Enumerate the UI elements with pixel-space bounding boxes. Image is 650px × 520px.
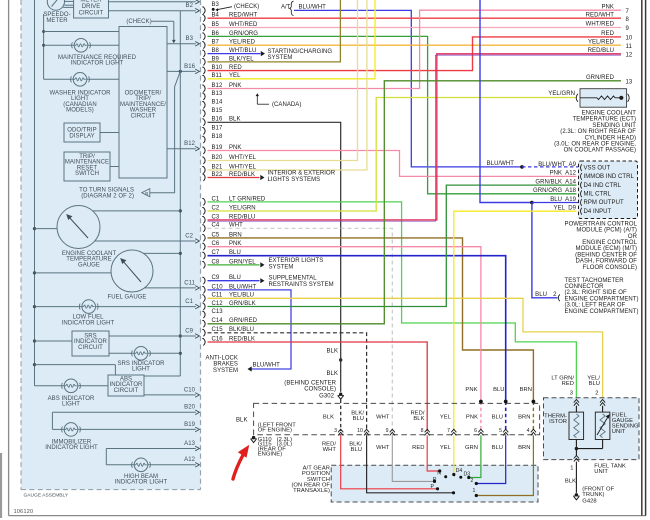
wire B16 BLK to G302 [208,122,343,392]
svg-text:D4: D4 [456,468,463,474]
pcm pin rows [533,162,634,215]
label fuel tank pin 1 [570,466,573,472]
svg-text:FLOOR CONSOLE): FLOOR CONSOLE) [583,265,637,271]
svg-text:CIRCUIT: CIRCUIT [79,11,104,17]
svg-text:SYSTEM: SYSTEM [268,55,293,61]
svg-text:SENDING UNIT: SENDING UNIT [592,123,636,129]
svg-text:BLU: BLU [589,381,600,387]
label EXTERIOR LIGHTS SYSTEM [269,258,324,270]
svg-text:B: B [145,191,148,196]
svg-text:POWERTRAIN CONTROL: POWERTRAIN CONTROL [565,221,638,227]
wire C15 BLK/BLU dashed [208,333,367,431]
trip maintenance reset switch box [64,152,110,181]
svg-text:D4 INPUT: D4 INPUT [584,209,612,215]
svg-text:BLU: BLU [535,292,547,298]
label C2 left [185,233,193,239]
wire box to B12 [167,146,199,151]
svg-text:(3.0L: LEFT REAR OF: (3.0L: LEFT REAR OF [565,303,626,309]
svg-text:BLK: BLK [327,349,339,355]
svg-text:D4 IND CTRL: D4 IND CTRL [584,183,622,189]
wire drive circuit to B2 top [109,0,200,4]
svg-text:YEL: YEL [440,415,452,421]
wire B4 RED/WHT to pin 8 [208,17,622,19]
svg-text:106120: 106120 [14,509,34,515]
svg-text:2: 2 [471,478,474,484]
svg-text:YEL/RED: YEL/RED [588,39,615,45]
label C11 left [184,280,195,286]
svg-text:BLU: BLU [492,415,503,421]
svg-text:10: 10 [626,36,633,42]
wire B20 WHT/YEL up [208,0,358,161]
svg-text:B14: B14 [212,99,223,105]
svg-text:TRUNK): TRUNK) [582,492,604,498]
svg-text:BRN: BRN [518,445,530,451]
svg-text:(CHECK): (CHECK) [126,19,151,25]
svg-text:WHT: WHT [376,445,390,451]
svg-text:RESTRAINTS SYSTEM: RESTRAINTS SYSTEM [269,282,334,288]
label YEL/BLU pin 2 [587,376,600,397]
svg-text:B15: B15 [212,108,223,114]
turn signals connector triangle [142,189,150,197]
svg-text:BLU: BLU [353,416,364,422]
svg-text:(CANADA): (CANADA) [272,102,301,108]
svg-text:SWITCH: SWITCH [75,171,99,177]
svg-text:TRANSAXLE): TRANSAXLE) [293,488,330,494]
svg-text:(CHECK): (CHECK) [234,4,259,10]
label ENGINE COOLANT TEMPERATURE GAUGE [62,251,117,268]
left bus line [33,0,36,386]
wire B11 YEL up [208,0,376,79]
svg-text:PNK: PNK [466,415,478,421]
label B12 left [184,141,195,147]
label ANTI-LOCK BRAKES SYSTEM [206,355,238,373]
svg-text:B19: B19 [184,422,195,428]
svg-text:3: 3 [570,391,573,397]
label B16 left [184,64,195,70]
svg-text:ON COOLANT PASSAGE): ON COOLANT PASSAGE) [564,148,636,154]
right edge pins 7-13 [586,4,633,85]
gauge assembly shaded area [21,0,201,490]
ect sending unit box [576,89,629,108]
label STARTING CHARGING SYSTEM [268,49,333,61]
srs indicator light [109,347,180,361]
svg-text:C13: C13 [212,309,224,315]
svg-text:VSS OUT: VSS OUT [584,165,611,171]
label C1 left [185,299,193,305]
svg-text:11: 11 [626,44,633,50]
svg-text:C1: C1 [185,299,193,305]
pcm connector box [579,161,638,219]
svg-text:OR: OR [628,234,638,240]
svg-text:GAUGE: GAUGE [78,262,100,268]
svg-text:BLK: BLK [327,371,339,377]
svg-text:CONSOLE): CONSOLE) [304,386,336,392]
wire bus to ECT gauge [35,228,58,230]
svg-text:INDICATOR LIGHT: INDICATOR LIGHT [71,61,124,67]
label HIGH BEAM INDICATOR LIGHT [115,474,168,486]
svg-text:GRN/RED: GRN/RED [586,75,615,81]
svg-text:B17: B17 [212,125,223,131]
bottom dashed enclosure [254,403,540,434]
red annotation arrow [233,445,249,479]
svg-text:10: 10 [357,428,363,434]
svg-text:B3: B3 [186,36,194,42]
wire C4 WHT dashed [208,228,393,431]
svg-text:BLK: BLK [236,417,248,423]
svg-text:ODO/TRIP: ODO/TRIP [67,127,96,133]
svg-text:CIRCUIT: CIRCUIT [114,388,139,394]
switch internal links [444,475,462,479]
wire C7 BLU [208,256,506,431]
label BLK fuel tank [565,479,576,485]
fuel gauge sending unit [595,406,639,440]
svg-text:PNK A12: PNK A12 [550,171,577,177]
svg-text:BLK: BLK [565,479,576,485]
svg-text:(DIAGRAM 2 OF 2): (DIAGRAM 2 OF 2) [81,193,134,199]
svg-text:CIRCUIT: CIRCUIT [78,345,103,351]
odometer trip maintenance washer circuit box [119,27,167,179]
svg-text:A/T: A/T [281,4,291,10]
page left border [8,0,10,516]
wire col1 RED/WHT into switch [341,435,439,490]
svg-text:TEMPERATURE (ECT): TEMPERATURE (ECT) [573,117,636,123]
svg-text:BLU/WHT: BLU/WHT [487,161,515,167]
svg-text:MIL CTRL: MIL CTRL [584,192,612,198]
wire B3 BLU/WHT [212,1,521,167]
immobilizer indicator light [52,423,199,437]
maintenance required indicator light [44,39,119,53]
label A13 left [184,441,195,447]
svg-text:MODULE (PCM) (A/T): MODULE (PCM) (A/T) [576,228,637,234]
wire bus to fuel gauge [35,272,112,274]
svg-text:SUPPLEMENTAL: SUPPLEMENTAL [269,275,318,281]
label BLK G302 lower [327,371,339,377]
svg-text:MODELS): MODELS) [66,108,94,114]
svg-text:SYSTEM: SYSTEM [213,368,238,374]
svg-text:(BEHIND CENTER OF: (BEHIND CENTER OF [575,252,637,258]
svg-text:LIGHTS SYSTEMS: LIGHTS SYSTEMS [268,177,321,183]
label YEL/GRN [548,91,575,97]
wire bus to circuit box [44,31,119,33]
svg-text:B16: B16 [184,64,195,70]
wire B7 YEL/RED to pin 11 [208,44,622,46]
label B19 left [184,422,195,428]
speedometer [47,0,64,10]
wire srs box to C9 [109,334,199,339]
speedometer to drive circuit wires [63,1,73,7]
svg-text:(3.0L: ON REAR OF ENGINE,: (3.0L: ON REAR OF ENGINE, [554,142,636,148]
svg-text:IMMOB IND CTRL: IMMOB IND CTRL [584,174,635,180]
svg-text:ENGINE COMPARTMENT): ENGINE COMPARTMENT) [565,309,639,315]
svg-text:3: 3 [334,428,337,434]
label SUPPLEMENTAL RESTRAINTS SYSTEM [269,275,334,287]
washer indicator light [44,73,119,87]
wire ECT gauge to bus3 [92,210,180,212]
svg-text:6: 6 [474,428,477,434]
wire BLU/WHT A9 dashed segment [487,161,578,169]
wire C5 BRN [208,238,534,431]
svg-text:INTERIOR & EXTERIOR: INTERIOR & EXTERIOR [268,170,336,176]
svg-text:ISTOR: ISTOR [549,419,567,425]
wire display to box [100,132,119,134]
svg-text:UNIT: UNIT [594,469,608,475]
label BLK G302 upper [327,349,339,355]
turn signals branch [150,71,181,192]
svg-text:8: 8 [421,428,424,434]
svg-text:(2.3L: RIGHT SIDE OF: (2.3L: RIGHT SIDE OF [565,290,628,296]
label MAINTENANCE REQUIRED INDICATOR LIGHT [58,55,137,67]
label GAUGE ASSEMBLY [24,493,69,499]
labels below bottom connector [322,442,531,454]
svg-text:YEL: YEL [440,445,452,451]
svg-text:C2: C2 [185,233,193,239]
svg-text:BLU/WHT: BLU/WHT [253,363,281,369]
label G110 annotation [258,423,297,458]
svg-text:LIGHT: LIGHT [62,402,80,408]
label G428 [582,486,614,504]
svg-text:LIGHT: LIGHT [132,367,150,373]
scan edge bottom left [0,453,2,518]
wire ECT gauge to C2 [95,239,200,244]
svg-text:RPM OUTPUT: RPM OUTPUT [584,200,624,206]
svg-text:ENGINE): ENGINE) [258,452,283,458]
svg-text:PNK: PNK [602,4,615,10]
wire C1 LT GRN/RED to fuel tank pin 3 [208,202,577,398]
svg-text:ENGINE COMPARTMENT): ENGINE COMPARTMENT) [565,296,639,302]
svg-text:RED/WHT: RED/WHT [586,12,615,18]
high beam indicator light [106,458,199,472]
wire C10 BLU/WHT to anti-lock brakes [208,290,292,372]
thermistor [544,406,583,440]
svg-text:1: 1 [473,488,476,494]
svg-text:STARTING/CHARGING: STARTING/CHARGING [268,49,333,55]
svg-text:A12: A12 [184,457,195,463]
odo trip display box [64,123,100,142]
svg-text:FUEL GAUGE: FUEL GAUGE [108,295,147,301]
svg-text:BLU: BLU [351,447,362,453]
label TO TURN SIGNALS [79,188,134,200]
fuel gauge [111,250,153,292]
wire abs box to C10 [144,393,199,398]
svg-text:BLU: BLU [493,387,504,393]
svg-text:BLU: BLU [492,445,503,451]
abs indicator circuit box [108,375,144,396]
srs indicator circuit box [72,331,109,356]
label FUEL TANK UNIT [594,463,626,475]
ground G428 [573,493,579,500]
label 106120 [14,509,34,515]
svg-text:BLU/WHT: BLU/WHT [299,4,327,10]
wire B6 GRN/ORG to PCM A18 [208,36,577,193]
svg-text:G428: G428 [582,498,596,504]
svg-text:RED: RED [562,381,574,387]
wire C6 PNK [208,247,481,431]
svg-text:WHT: WHT [323,447,337,453]
svg-text:B20: B20 [184,405,195,411]
wire bus to srs box [35,340,73,342]
wire C11 YEL/BLU to fuel tank pin 2 [208,298,603,397]
page bottom border [9,515,646,517]
svg-text:ENGINE COOLANT: ENGINE COOLANT [582,111,637,117]
svg-text:1: 1 [570,466,573,472]
label ect sending unit text [554,111,636,154]
svg-text:7: 7 [447,428,450,434]
wire col7 BLU into switch [475,435,506,485]
svg-text:TEST TACHOMETER: TEST TACHOMETER [565,278,625,284]
junction dots at gear switch wires [479,400,535,404]
svg-text:D3: D3 [464,471,471,477]
gauge assembly dashed border [21,0,201,490]
bottom connector chevrons [338,429,536,435]
wire C16 RED/BLK [208,342,428,431]
svg-text:GAUGE ASSEMBLY: GAUGE ASSEMBLY [24,493,69,499]
svg-text:DRIVE: DRIVE [82,4,101,10]
wire C2 YEL/GRN to ECT sending unit [208,98,577,212]
label B2 [186,3,194,9]
svg-text:A13: A13 [184,441,195,447]
low fuel indicator light [35,300,200,314]
wire reset switch to box [110,166,119,168]
svg-text:12: 12 [626,52,633,58]
label B20 left [184,405,195,411]
label FUEL GAUGE [108,295,147,301]
label INTERIOR EXTERIOR LIGHTS [268,170,336,183]
svg-text:INDICATOR LIGHT: INDICATOR LIGHT [45,445,98,451]
wire col6 GRN into switch [467,435,481,479]
test tachometer connector pin [535,292,560,301]
svg-text:RED: RED [601,31,614,37]
svg-text:GRN/BLK A14: GRN/BLK A14 [535,179,576,185]
svg-text:YEL/GRN: YEL/GRN [548,91,575,97]
svg-text:METER: METER [46,18,68,24]
wire B8 WHT/BLU arrow [208,51,266,56]
svg-text:N: N [437,470,441,476]
wire col2 BLK/BLU into switch [367,435,456,494]
svg-text:C9: C9 [185,328,193,334]
svg-text:4: 4 [527,428,530,434]
ground G110 [250,436,256,443]
label B3 left [186,36,194,42]
svg-text:WHT/RED: WHT/RED [586,22,615,28]
connector pin symbols and labels B3-B22 C1-C16 [202,2,266,345]
svg-text:EXTERIOR LIGHTS: EXTERIOR LIGHTS [269,258,324,264]
wire C9 BLU arrow [208,278,265,283]
svg-text:PNK: PNK [465,387,477,393]
wire B19 PNK to PCM A12 [208,151,577,177]
svg-text:GRN/ORG A18: GRN/ORG A18 [533,188,577,194]
svg-text:DISPLAY: DISPLAY [69,134,94,140]
svg-text:13: 13 [626,79,633,85]
check annotation [126,19,175,43]
wire A13 loop [106,446,199,465]
label WASHER INDICATOR LIGHT [49,91,111,114]
svg-text:METER: METER [80,0,102,4]
svg-text:WHT: WHT [376,415,390,421]
svg-text:BRAKES: BRAKES [213,362,238,368]
svg-text:OF ENGINE): OF ENGINE) [258,428,292,434]
ground G302 [338,393,344,432]
svg-text:5: 5 [499,428,502,434]
wire B22 RED/BLK arrow [208,175,265,180]
label pcm text [565,221,638,270]
svg-text:RED: RED [412,445,424,451]
svg-text:BLK: BLK [323,415,334,421]
wire B12 PNK to pin 7 [208,10,622,88]
label LT GRN/RED pin 3 [551,376,574,397]
canada annotation [256,93,302,108]
bus line right of box [144,11,182,376]
svg-text:CYLINDER HEAD): CYLINDER HEAD) [585,135,636,141]
fuel tank unit box [544,398,640,460]
svg-text:INDICATOR LIGHT: INDICATOR LIGHT [62,320,115,326]
meter drive circuit box [74,0,109,18]
wire B10 RED to pin 10 [208,37,622,71]
at gear position switch box [331,465,538,502]
wire C14 GRN/RED to pin 13 [208,81,622,324]
labels above bottom connector [323,411,531,423]
svg-text:C10: C10 [184,387,196,393]
wire col8 BRN into switch [475,435,534,497]
wire C8 GRN/YEL arrow [208,262,265,267]
label BEHIND CENTER CONSOLE [284,380,336,399]
fuel tank bottom wires [574,440,603,493]
wire B20 loop [52,410,199,429]
svg-text:INDICATOR LIGHT: INDICATOR LIGHT [115,480,168,486]
wire fuel gauge to C11 [145,286,200,291]
svg-text:GRN: GRN [465,445,478,451]
wire YEL D9 to gear switch [454,211,577,431]
svg-text:CIRCUIT: CIRCUIT [131,113,156,119]
label C9 left [185,328,193,334]
switch contact labels [430,468,475,494]
wire box to B16 [167,69,199,74]
page right border double line [642,0,646,516]
label LOW FUEL INDICATOR LIGHT [62,315,115,327]
wire fuel gauge to bus3 [143,252,180,254]
wire drive circuit to B2 [109,8,200,13]
svg-text:9: 9 [386,428,389,434]
fuel tank pin chevrons [574,400,605,406]
svg-text:UNIT: UNIT [612,429,626,435]
label ABS INDICATOR LIGHT [48,396,95,408]
label A12 left [184,457,195,463]
wire C12 GRN/BLK to PCM A14 [208,185,577,306]
label AT GEAR POSITION SWITCH [291,466,330,494]
engine coolant temperature gauge [57,206,100,249]
svg-text:BRN: BRN [518,415,530,421]
svg-text:B3: B3 [212,2,220,8]
svg-text:B18: B18 [212,134,223,140]
svg-text:2: 2 [595,391,598,397]
label BLK G110 [236,417,248,423]
svg-text:MODULE (ECM) (M/T): MODULE (ECM) (M/T) [575,246,637,252]
svg-text:P: P [430,484,434,490]
wire B21 WHT/YEL up [208,0,367,170]
svg-text:ENGINE CONTROL: ENGINE CONTROL [582,240,637,246]
pin numbers bottom connector [334,428,530,434]
abs indicator light [35,379,109,393]
svg-text:B12: B12 [184,141,195,147]
wire C3 RED/BLU to pin 12 [208,54,622,221]
label IMMOBILIZER INDICATOR LIGHT [45,439,98,451]
svg-text:R: R [433,477,437,483]
svg-text:RED/BLU: RED/BLU [588,48,614,54]
wire BLU A19 and tach branch [480,0,578,298]
svg-text:SYSTEM: SYSTEM [269,264,294,270]
svg-text:ANTI-LOCK: ANTI-LOCK [206,355,238,361]
svg-text:DASH, FORWARD OF: DASH, FORWARD OF [576,259,638,265]
label C10 left [184,387,196,393]
